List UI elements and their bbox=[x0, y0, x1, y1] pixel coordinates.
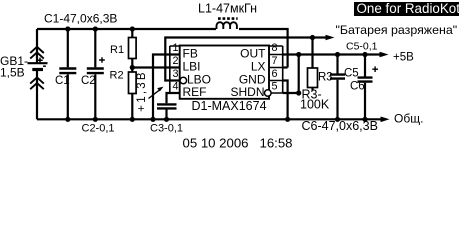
svg-text:4: 4 bbox=[172, 81, 178, 93]
svg-text:3: 3 bbox=[172, 68, 178, 80]
svg-text:"Батарея разряжена": "Батарея разряжена" bbox=[336, 23, 458, 37]
wire bottom ground rail bbox=[37, 118, 383, 120]
svg-text:REF: REF bbox=[183, 85, 207, 99]
IC left pin number column bbox=[170, 46, 180, 93]
svg-text:C2-0,1: C2-0,1 bbox=[82, 123, 115, 135]
wire top rail battery to inductor bbox=[37, 28, 216, 30]
svg-text:7: 7 bbox=[272, 55, 278, 67]
junction dot C5 top bbox=[335, 52, 340, 57]
capacitor C2 bottom lead bbox=[94, 74, 96, 119]
battery GB1 top clip chevrons bbox=[30, 47, 44, 59]
svg-text:1,5В: 1,5В bbox=[0, 66, 25, 80]
capacitor C6 bottom lead bbox=[364, 83, 366, 120]
capacitor C5 bottom lead bbox=[336, 80, 338, 120]
svg-text:5: 5 bbox=[272, 81, 278, 93]
capacitor C1 top lead bbox=[67, 29, 69, 67]
battery minus sign bbox=[43, 65, 46, 67]
IC left pin cell dividers bbox=[170, 55, 180, 94]
junction dot C2 bottom bbox=[93, 117, 98, 122]
capacitor C2 plus sign bbox=[99, 57, 105, 63]
resistor R1 body bbox=[129, 38, 137, 59]
svg-text:C3-0,1: C3-0,1 bbox=[150, 123, 183, 135]
junction dot C1 bottom bbox=[65, 117, 70, 122]
wire OUT down to SHDN bbox=[298, 55, 300, 94]
svg-text:1: 1 bbox=[172, 42, 178, 54]
capacitor C6 plus sign bbox=[372, 66, 378, 72]
svg-text:05 10 2006 16:58: 05 10 2006 16:58 bbox=[183, 135, 293, 150]
resistor R2 body bbox=[129, 72, 137, 94]
capacitor C3 plates bbox=[157, 104, 177, 108]
battery GB1 positive plate bbox=[28, 62, 48, 64]
junction dot C5 bottom bbox=[335, 117, 340, 122]
wire LBO pin 3 up and over to battery-low output bbox=[165, 38, 330, 81]
resistor R2 bottom lead bbox=[131, 94, 133, 120]
wire inductor to LX corner bbox=[239, 29, 288, 68]
junction dot battery-low line R3 bbox=[310, 35, 315, 40]
junction dot C3 bottom bbox=[164, 117, 169, 122]
inductor L1 bbox=[217, 22, 237, 29]
battery GB1 bottom clip chevrons bbox=[30, 77, 44, 89]
battery plus sign bbox=[37, 58, 42, 63]
capacitor C1 plates bbox=[59, 69, 76, 74]
wire +5V rail bbox=[299, 53, 382, 55]
svg-text:C5: C5 bbox=[344, 68, 359, 80]
junction dot SHDN OUT tie bbox=[296, 90, 301, 95]
resistor R3 top lead from battery-low line bbox=[311, 38, 313, 69]
resistor R3 body bbox=[308, 68, 318, 88]
wire LX pin 7 to inductor bbox=[283, 66, 288, 68]
arrowhead +5V output bbox=[380, 52, 389, 58]
battery GB1 negative plate bbox=[32, 68, 43, 71]
IC right pin number column bbox=[269, 46, 283, 93]
svg-text:C1: C1 bbox=[55, 75, 70, 87]
wire GND pin 6 to ground rail bbox=[283, 81, 288, 120]
junction dot C6 bottom bbox=[362, 117, 367, 122]
wire battery bottom lead to ground rail bbox=[36, 71, 38, 119]
svg-text:8: 8 bbox=[272, 42, 278, 54]
arrowhead ground output bbox=[381, 117, 390, 123]
wire REF pin 4 to C3 bbox=[167, 93, 180, 103]
svg-text:One for RadioKot: One for RadioKot bbox=[357, 1, 459, 16]
wire R1 to R2 junction bbox=[131, 59, 133, 73]
resistor R1 top lead bbox=[131, 29, 133, 38]
svg-text:+5В: +5В bbox=[393, 52, 414, 64]
svg-text:R2: R2 bbox=[110, 70, 124, 82]
svg-text:C1-47,0x6,3В: C1-47,0x6,3В bbox=[44, 12, 117, 26]
svg-text:2: 2 bbox=[172, 55, 178, 67]
svg-text:LX: LX bbox=[251, 59, 266, 73]
junction dot GND rail bbox=[285, 117, 290, 122]
svg-text:R1: R1 bbox=[110, 44, 124, 56]
junction dot OUT rail bbox=[296, 52, 301, 57]
capacitor C6 top lead bbox=[364, 55, 366, 77]
svg-text:L1-47мкГн: L1-47мкГн bbox=[198, 2, 257, 16]
junction dot C1 top bbox=[65, 26, 70, 31]
inversion bubble pin 5 SHDN bbox=[265, 90, 272, 97]
wire battery top lead bbox=[36, 29, 38, 63]
svg-text:OUT: OUT bbox=[240, 46, 266, 60]
capacitor C5 plates bbox=[330, 75, 345, 79]
svg-text:6: 6 bbox=[272, 68, 278, 80]
capacitor C1 bottom lead bbox=[67, 74, 69, 119]
wire OUT pin 8 to +5V rail bbox=[283, 53, 299, 55]
junction dot C2 top bbox=[93, 26, 98, 31]
capacitor C5 top lead bbox=[336, 55, 338, 74]
capacitor C6 plates bbox=[358, 78, 373, 82]
arrowhead battery-low output bbox=[326, 35, 335, 41]
svg-text:C6-47,0x6,3В: C6-47,0x6,3В bbox=[302, 119, 378, 133]
junction dot R1 top bbox=[130, 26, 135, 31]
junction dot R2 bottom bbox=[130, 117, 135, 122]
svg-text:R3: R3 bbox=[318, 72, 333, 84]
wire LBI divider junction to pin 2 bbox=[132, 66, 179, 68]
wire SHDN pin 5 bbox=[283, 92, 299, 94]
IC right pin cell dividers bbox=[269, 55, 283, 94]
inductor L1 core dashed line bbox=[218, 17, 238, 20]
svg-text:100K: 100K bbox=[300, 98, 330, 112]
resistor R3 bottom lead bbox=[311, 88, 313, 91]
svg-text:C2: C2 bbox=[81, 75, 96, 87]
capacitor C2 top lead bbox=[94, 29, 96, 67]
wire FB pin 1 to ground bbox=[153, 55, 180, 120]
svg-text:C6: C6 bbox=[350, 81, 365, 93]
svg-text:SHDN: SHDN bbox=[230, 85, 264, 99]
svg-text:Общ.: Общ. bbox=[394, 112, 423, 126]
svg-text:D1-MAX1674: D1-MAX1674 bbox=[192, 99, 267, 113]
svg-text:FB: FB bbox=[183, 46, 198, 60]
capacitor C3 bottom lead bbox=[165, 110, 167, 120]
inversion bubble pin 3 LBO bbox=[180, 77, 187, 84]
op-amp D1 IC body MAX1674 bbox=[180, 46, 269, 99]
capacitor C2 plates bbox=[87, 69, 104, 74]
junction dot C6 top bbox=[362, 52, 367, 57]
junction dot R1 R2 LBI bbox=[130, 65, 135, 70]
banner One for RadioKot bbox=[354, 2, 459, 16]
junction dot FB ground bbox=[150, 117, 155, 122]
svg-text:C5-0,1: C5-0,1 bbox=[346, 41, 378, 53]
svg-text:LBI: LBI bbox=[183, 59, 201, 73]
svg-text:+1,3В: +1,3В bbox=[136, 70, 148, 111]
annotation arrow +1,3V pointing at REF pin bbox=[149, 89, 161, 98]
